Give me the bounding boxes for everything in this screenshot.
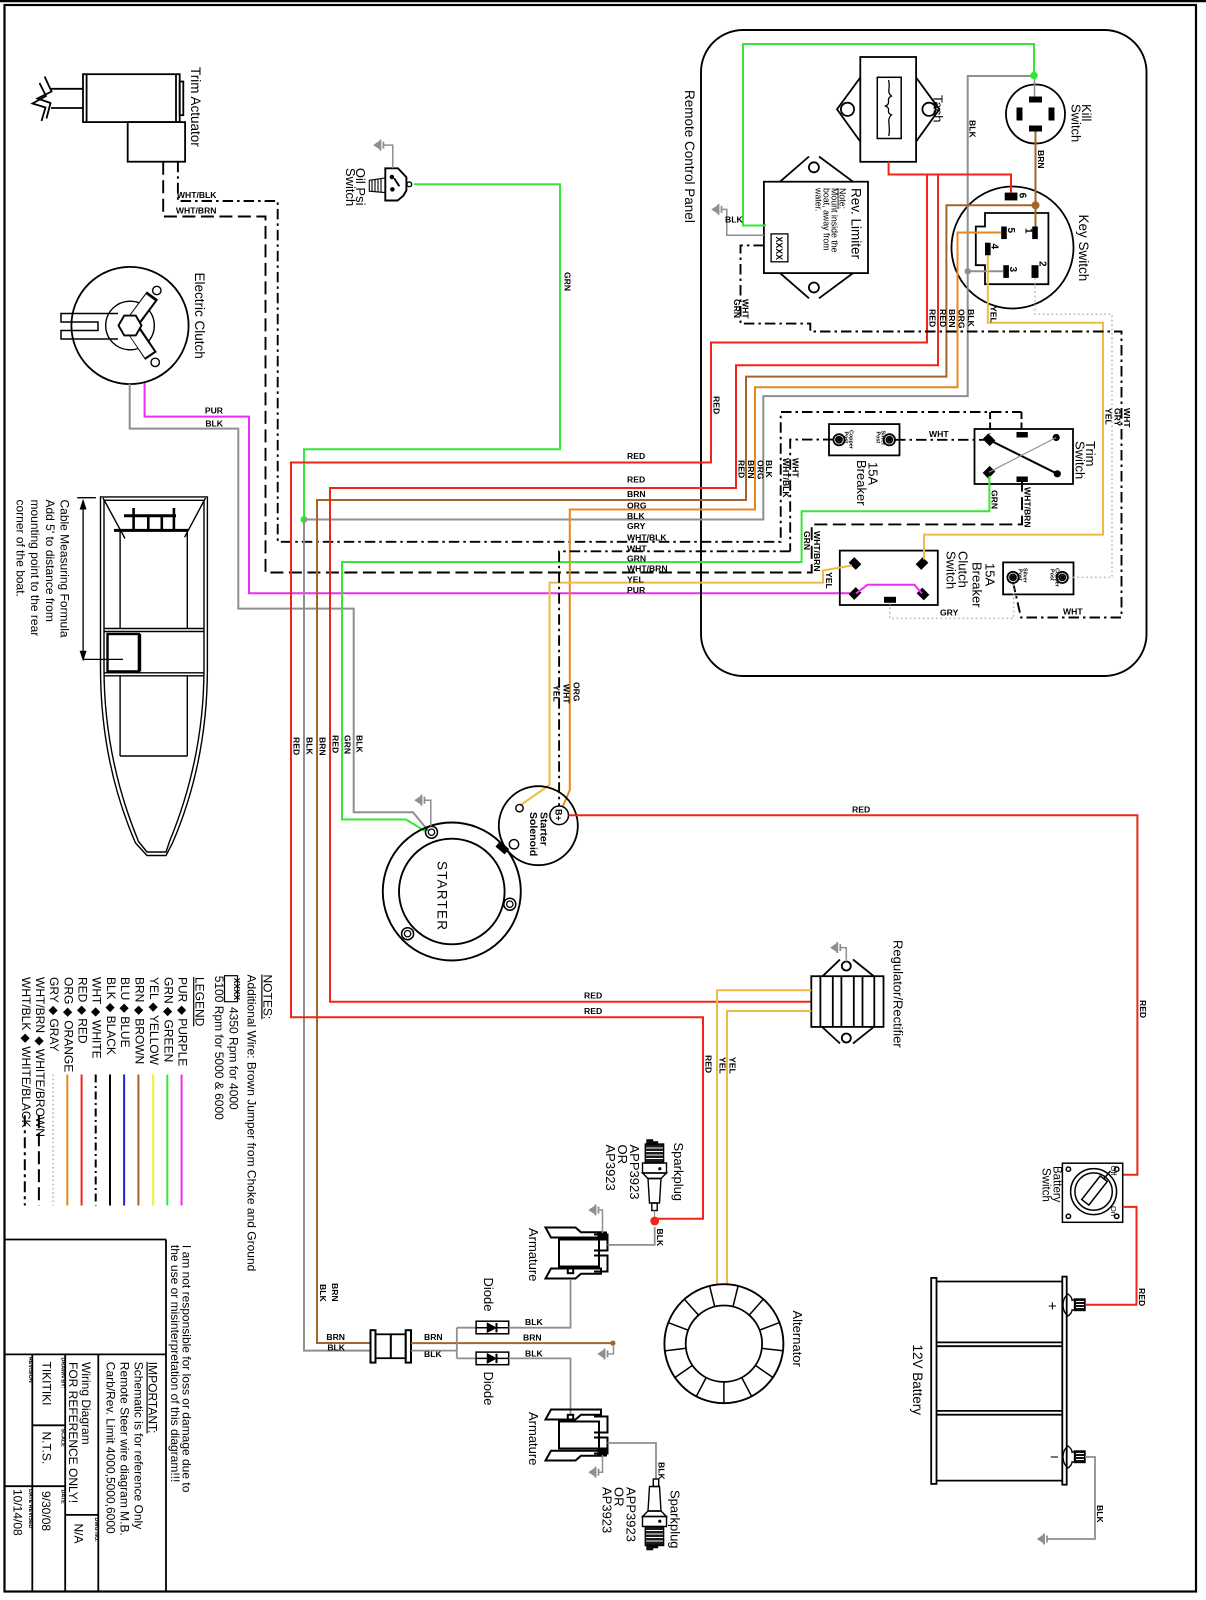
key switch pads xyxy=(985,193,1039,278)
boat lower rails xyxy=(119,676,121,756)
wire GRY pin3 stub xyxy=(968,270,1004,272)
svg-text:GRN ◆ GREEN: GRN ◆ GREEN xyxy=(161,977,175,1062)
boat hull outline xyxy=(101,497,208,856)
svg-text:+: + xyxy=(1048,1298,1057,1315)
svg-text:RED: RED xyxy=(852,805,870,815)
svg-text:Tach: Tach xyxy=(931,95,946,122)
svg-text:BLK: BLK xyxy=(725,215,743,225)
svg-text:RED: RED xyxy=(938,309,948,327)
svg-text:BRN ◆ BROWN: BRN ◆ BROWN xyxy=(132,977,146,1064)
wire BLK kill area to key pin3 and panel exit xyxy=(304,76,1031,1351)
svg-text:NOTES:: NOTES: xyxy=(261,975,275,1020)
svg-text:RED: RED xyxy=(712,396,722,414)
svg-text:5100 Rpm for 5000 & 6000: 5100 Rpm for 5000 & 6000 xyxy=(212,976,226,1120)
brown dot xyxy=(610,1341,615,1346)
ground at starter xyxy=(416,795,425,806)
svg-text:ORG: ORG xyxy=(755,460,765,480)
svg-text:Switch: Switch xyxy=(1069,104,1084,142)
svg-text:BLK: BLK xyxy=(525,1348,543,1358)
svg-text:BRN: BRN xyxy=(947,309,957,328)
svg-text:−: − xyxy=(1050,1449,1059,1466)
electric clutch hex nut xyxy=(119,316,142,336)
rev limiter body xyxy=(764,157,868,299)
oil psi threaded stub xyxy=(369,178,385,193)
armature2 ground xyxy=(599,1455,603,1472)
svg-text:YEL: YEL xyxy=(824,572,834,589)
starter bolt right xyxy=(504,898,516,910)
svg-text:BLU ◆ BLUE: BLU ◆ BLUE xyxy=(118,977,132,1048)
svg-text:RED: RED xyxy=(627,475,645,485)
wire WHT panel to solenoid xyxy=(559,551,790,806)
svg-text:N/A: N/A xyxy=(72,1524,86,1544)
svg-text:Armature: Armature xyxy=(526,1412,541,1465)
svg-text:the use or misinterpretation o: the use or misinterpretation of this dia… xyxy=(168,1245,182,1482)
svg-text:BLK: BLK xyxy=(966,309,976,327)
svg-text:GRN: GRN xyxy=(627,554,646,564)
key switch inner outline xyxy=(976,213,1049,284)
15A breaker 1 xyxy=(829,424,900,455)
svg-text:RED ◆ RED: RED ◆ RED xyxy=(76,977,90,1044)
title block xyxy=(5,1240,167,1592)
svg-text:Switch: Switch xyxy=(343,168,358,206)
svg-text:BLK: BLK xyxy=(205,419,223,429)
svg-text:1: 1 xyxy=(1023,228,1034,234)
svg-text:Armature: Armature xyxy=(526,1228,541,1281)
oil psi switch body xyxy=(385,168,411,200)
svg-text:ORG: ORG xyxy=(627,501,647,511)
starter bolt bottom-left xyxy=(402,928,414,940)
svg-text:XXXX: XXXX xyxy=(232,978,242,1001)
svg-text:WHT/BRN ◆ WHITE/BROWN: WHT/BRN ◆ WHITE/BROWN xyxy=(33,977,47,1137)
svg-text:PUR: PUR xyxy=(627,585,646,595)
svg-text:RED: RED xyxy=(737,460,747,478)
svg-text:WHT/BLK ◆ WHITE/BLACK: WHT/BLK ◆ WHITE/BLACK xyxy=(19,977,33,1128)
solenoid B+ terminal xyxy=(550,806,569,825)
svg-text:RED: RED xyxy=(292,737,302,755)
svg-text:STARTER: STARTER xyxy=(435,861,450,931)
svg-text:RED: RED xyxy=(1137,1288,1147,1306)
starter pad to solenoid xyxy=(495,841,509,854)
armature1 to sparkplug1 BLK xyxy=(608,1227,655,1245)
junction dot brown xyxy=(1032,201,1040,209)
svg-text:6: 6 xyxy=(1017,193,1028,199)
svg-text:PUR ◆ PURPLE: PUR ◆ PURPLE xyxy=(176,977,190,1066)
wire YEL regulator to alternator 1 xyxy=(717,990,811,1285)
regulator ground xyxy=(840,948,846,962)
wire WHT copper post leg xyxy=(790,440,833,552)
key switch circle xyxy=(952,187,1074,309)
svg-text:DATE: DATE xyxy=(60,1490,66,1505)
svg-text:Key Switch: Key Switch xyxy=(1076,215,1091,282)
svg-text:2: 2 xyxy=(1037,261,1048,267)
svg-text:BLK: BLK xyxy=(525,1317,543,1327)
svg-text:RED: RED xyxy=(584,1006,602,1016)
svg-text:Schematic is for reference Onl: Schematic is for reference Only xyxy=(132,1362,146,1529)
svg-text:Off: Off xyxy=(1109,1166,1118,1177)
svg-text:LEGEND: LEGEND xyxy=(192,977,206,1027)
armature 1 xyxy=(546,1228,608,1279)
electric clutch arm down-right xyxy=(130,326,159,367)
svg-text:PUR: PUR xyxy=(205,406,224,416)
svg-text:Post: Post xyxy=(1017,569,1023,581)
trim switch box xyxy=(975,429,1074,484)
wire RED solenoid B+ to battery switch xyxy=(569,815,1138,1175)
svg-text:Rev. Limiter: Rev. Limiter xyxy=(849,188,864,260)
svg-text:Remote Steer wire diagram M.B.: Remote Steer wire diagram M.B. xyxy=(118,1362,132,1536)
svg-text:N.T.S.: N.T.S. xyxy=(40,1432,54,1465)
svg-text:TIKITIKI: TIKITIKI xyxy=(40,1362,54,1406)
svg-text:4: 4 xyxy=(989,244,1000,250)
armature1 ground xyxy=(599,1210,603,1233)
svg-text:YEL: YEL xyxy=(718,1057,728,1074)
wire GRN rev limiter to kill switch loop xyxy=(743,44,1034,226)
battery + terminal wing nut xyxy=(1063,1294,1085,1316)
svg-text:10/14/08: 10/14/08 xyxy=(11,1489,25,1536)
svg-text:5: 5 xyxy=(1005,228,1016,234)
alternator ring xyxy=(664,1284,783,1403)
svg-text:Switch: Switch xyxy=(1073,441,1088,479)
svg-text:BRN: BRN xyxy=(627,489,646,499)
alternator teeth xyxy=(665,1286,783,1403)
svg-text:BRN: BRN xyxy=(746,460,756,479)
svg-text:FOR REFERENCE ONLY!: FOR REFERENCE ONLY! xyxy=(66,1362,80,1503)
svg-text:Wiring Diagram: Wiring Diagram xyxy=(79,1362,93,1445)
svg-text:Breaker: Breaker xyxy=(970,562,985,608)
svg-text:GRN: GRN xyxy=(802,531,812,550)
svg-text:WHT: WHT xyxy=(791,458,801,478)
regulator rectifier body xyxy=(811,960,883,1044)
svg-text:AP3923: AP3923 xyxy=(600,1487,615,1533)
sparkplug1 red dot xyxy=(650,1217,659,1226)
kill switch pads xyxy=(1017,97,1055,132)
remote control panel rounded box xyxy=(701,30,1147,676)
wire GRN oil psi to BLK junction xyxy=(304,184,560,519)
svg-text:Sparkplug: Sparkplug xyxy=(668,1490,683,1549)
starter inner circle xyxy=(399,839,505,945)
15A breaker 2 xyxy=(1003,562,1073,594)
svg-text:BRN: BRN xyxy=(318,737,328,756)
svg-text:YEL: YEL xyxy=(627,575,644,585)
starter solenoid circle xyxy=(499,786,578,865)
wire GRY kill switch stub to dot xyxy=(1034,79,1036,97)
12V battery body xyxy=(931,1277,1067,1485)
svg-text:GRY: GRY xyxy=(940,608,959,618)
wire WHT/BLK from trim actuator xyxy=(178,162,1022,542)
svg-text:GRN: GRN xyxy=(343,735,353,754)
svg-text:BRN: BRN xyxy=(1036,150,1046,169)
svg-text:Trim Actuator: Trim Actuator xyxy=(188,67,203,147)
svg-text:WHT: WHT xyxy=(561,684,571,704)
svg-text:WHT/BLK: WHT/BLK xyxy=(627,533,667,543)
wire GRN trim switch to starter xyxy=(342,476,989,831)
svg-text:Regulator/Rectifier: Regulator/Rectifier xyxy=(891,940,906,1048)
svg-text:YEL: YEL xyxy=(988,306,998,323)
solenoid small terminal xyxy=(516,804,523,811)
clutch switch box xyxy=(840,551,938,605)
svg-text:RED: RED xyxy=(928,309,938,327)
svg-text:BRN: BRN xyxy=(424,1332,443,1342)
svg-text:GRN: GRN xyxy=(732,299,742,318)
svg-text:ORG: ORG xyxy=(956,309,966,329)
boat side rails xyxy=(119,530,121,628)
svg-text:BRN: BRN xyxy=(330,1283,340,1302)
svg-text:Cable Measuring Formula: Cable Measuring Formula xyxy=(58,500,72,638)
trim switch center pads xyxy=(1017,432,1028,438)
svg-text:WHT: WHT xyxy=(929,429,949,439)
svg-text:WHT/BRN: WHT/BRN xyxy=(627,564,668,574)
svg-text:BLK: BLK xyxy=(318,1284,328,1302)
diode 1 xyxy=(476,1321,509,1334)
svg-text:BLK: BLK xyxy=(305,737,315,755)
trim switch cross lines xyxy=(989,440,1057,474)
svg-text:Post: Post xyxy=(875,432,881,444)
trim actuator body xyxy=(33,74,186,162)
svg-text:Alternator: Alternator xyxy=(790,1311,805,1368)
wire YEL clutch switch UL pad to solenoid xyxy=(520,566,852,806)
svg-text:XXXX: XXXX xyxy=(774,237,784,261)
wire WHT breaker1 silver post to trim switch pad xyxy=(895,439,984,441)
ground at brown dot xyxy=(608,1345,614,1354)
note: XXXX rpm box xyxy=(225,976,238,1002)
svg-text:Remote Control Panel: Remote Control Panel xyxy=(682,90,697,223)
svg-text:Breaker: Breaker xyxy=(854,460,869,506)
boat dimension line xyxy=(77,498,123,660)
starter outer circle xyxy=(383,823,521,961)
wire GRY clutch switch to breaker2 silver xyxy=(890,584,1014,619)
clutch switch magenta jumper xyxy=(856,585,922,594)
sparkplug1 tip wire xyxy=(654,1211,656,1219)
junction dot green on BLK wire xyxy=(300,516,307,523)
wire BLK coil to diodes split xyxy=(411,1328,476,1359)
armature 2 xyxy=(546,1410,608,1461)
svg-text:BLK: BLK xyxy=(655,1229,665,1247)
boat mid bulkhead xyxy=(104,628,204,630)
junction dot green above kill switch xyxy=(1030,72,1038,80)
trim switch dots xyxy=(1053,434,1060,441)
wire WHT/BLK branch to trim switch pads xyxy=(990,412,1021,434)
electric clutch hub xyxy=(106,301,155,350)
svg-text:Carb/Rev. Limit 4000,5000,6000: Carb/Rev. Limit 4000,5000,6000 xyxy=(104,1362,118,1534)
wire BLK diode1 to armature1 xyxy=(509,1280,571,1328)
svg-text:RED: RED xyxy=(704,1055,714,1073)
svg-text:Add 5' to distance from: Add 5' to distance from xyxy=(43,500,57,622)
clutch switch bottom pad xyxy=(884,597,896,603)
wire WHT/BRN from trim actuator xyxy=(163,162,1022,573)
svg-text:WHT/BRN: WHT/BRN xyxy=(1022,487,1032,528)
svg-text:RED: RED xyxy=(1138,1000,1148,1018)
wire YEL regulator to alternator 2 xyxy=(727,1011,811,1285)
tach body xyxy=(837,57,939,162)
svg-text:YEL: YEL xyxy=(728,1057,738,1074)
svg-text:Diode: Diode xyxy=(481,1278,496,1312)
svg-text:Post: Post xyxy=(1049,569,1055,581)
battery switch body xyxy=(1062,1163,1122,1222)
svg-text:WHT ◆ WHITE: WHT ◆ WHITE xyxy=(90,977,104,1059)
clutch switch diagonal pads xyxy=(849,557,862,570)
wire BLK diode2 to armature2 xyxy=(509,1358,571,1415)
solenoid lower-left terminal xyxy=(509,840,518,849)
svg-text:water.: water. xyxy=(814,187,824,211)
svg-text:Solenoid: Solenoid xyxy=(527,812,539,856)
svg-text:Switch: Switch xyxy=(1040,1168,1052,1202)
svg-text:BRN: BRN xyxy=(326,1332,345,1342)
starter ground wire xyxy=(425,800,431,826)
svg-text:ORG: ORG xyxy=(572,682,582,702)
svg-text:BLK: BLK xyxy=(355,735,365,753)
boat transom grid xyxy=(124,514,176,517)
svg-text:REVISION: REVISION xyxy=(27,1357,33,1383)
svg-text:mounting point to the rear: mounting point to the rear xyxy=(28,500,42,637)
wire RED tach to pin6 xyxy=(889,162,1011,193)
boat mounting box xyxy=(108,634,139,671)
svg-text:YEL: YEL xyxy=(1104,408,1114,425)
boat stern diagonals xyxy=(103,498,125,539)
svg-text:12V Battery: 12V Battery xyxy=(910,1345,925,1416)
svg-text:AP3923: AP3923 xyxy=(603,1145,618,1191)
wire BRN kill switch to pin1 and exit xyxy=(317,132,1036,1344)
electric clutch outer circle xyxy=(71,267,188,384)
wire RED tap1 to sparkplug1 xyxy=(291,175,927,1219)
electric clutch arm up-right xyxy=(130,286,161,325)
svg-text:Switch: Switch xyxy=(944,551,959,589)
wire RED tap2 to regulator xyxy=(330,175,938,1002)
sparkplug 2 xyxy=(643,1479,667,1550)
trim switch diagonal pads xyxy=(983,433,996,446)
svg-text:4350 Rpm for 4000: 4350 Rpm for 4000 xyxy=(227,1007,241,1110)
ground at oil psi xyxy=(374,140,383,151)
svg-text:Post: Post xyxy=(843,432,849,444)
svg-text:WHT/BLK: WHT/BLK xyxy=(781,458,791,498)
svg-text:corner of the boat.: corner of the boat. xyxy=(13,500,27,597)
svg-text:GRY: GRY xyxy=(627,521,646,531)
svg-text:RED: RED xyxy=(627,451,645,461)
kill switch circle xyxy=(1006,85,1065,144)
wire BLK from clutch to starter xyxy=(130,384,428,831)
svg-text:BLK: BLK xyxy=(627,511,645,521)
wire YEL key pin4 to clutch switch xyxy=(924,255,1103,559)
ground at rev limiter xyxy=(713,204,722,215)
svg-text:BLK: BLK xyxy=(968,120,978,138)
svg-text:YEL ◆ YELLOW: YEL ◆ YELLOW xyxy=(147,977,161,1066)
junction dot gray at pin3 xyxy=(965,268,971,274)
svg-text:WHT/BRN: WHT/BRN xyxy=(176,206,217,216)
svg-text:IMPORTANT:: IMPORTANT: xyxy=(146,1362,160,1434)
wire BLK battery negative to ground xyxy=(1047,1457,1095,1539)
svg-text:BLK ◆ BLACK: BLK ◆ BLACK xyxy=(104,977,118,1055)
starter bolt top-left xyxy=(426,826,438,838)
svg-text:ORG ◆ ORANGE: ORG ◆ ORANGE xyxy=(61,977,75,1072)
oil psi ground wire xyxy=(383,145,392,168)
svg-text:WHT/BRN: WHT/BRN xyxy=(812,531,822,572)
svg-text:SCALE: SCALE xyxy=(60,1429,66,1448)
svg-text:WHT: WHT xyxy=(1063,607,1083,617)
svg-text:RED: RED xyxy=(331,735,341,753)
svg-text:BLK: BLK xyxy=(764,460,774,478)
wire BRN coil to ground dot xyxy=(411,1342,611,1344)
svg-text:B+: B+ xyxy=(554,809,564,821)
rev limiter ground wire xyxy=(722,209,764,235)
svg-text:BRN: BRN xyxy=(523,1333,542,1343)
svg-text:DRAWN BY:: DRAWN BY: xyxy=(60,1358,66,1389)
battery - terminal wing nut xyxy=(1063,1446,1085,1468)
wire WHT rev limiter to breaker2 silver xyxy=(741,245,1122,617)
svg-text:BLK: BLK xyxy=(327,1342,345,1352)
svg-text:DATE REVISED: DATE REVISED xyxy=(27,1489,33,1529)
wire PUR from clutch xyxy=(145,383,855,593)
svg-text:GRY ◆ GRAY: GRY ◆ GRAY xyxy=(47,977,61,1052)
svg-text:BLK: BLK xyxy=(1095,1505,1105,1523)
svg-text:WHT/BLK: WHT/BLK xyxy=(177,190,217,200)
svg-text:GRN: GRN xyxy=(990,490,1000,509)
wire ORG key pin5 exit xyxy=(563,233,1001,807)
svg-text:Electric Clutch: Electric Clutch xyxy=(192,273,207,359)
svg-text:On: On xyxy=(1109,1206,1118,1216)
svg-text:GRN: GRN xyxy=(563,272,573,291)
svg-text:DWG NO.: DWG NO. xyxy=(93,1518,99,1543)
electric clutch fork arm xyxy=(61,314,118,340)
svg-text:Additional Wire: Brown Jumper: Additional Wire: Brown Jumper from Choke… xyxy=(245,975,259,1272)
svg-text:9/30/08: 9/30/08 xyxy=(39,1491,53,1531)
diode 2 xyxy=(476,1352,509,1365)
coil connector left plate xyxy=(371,1330,412,1362)
svg-text:3: 3 xyxy=(1007,267,1018,273)
svg-text:RED: RED xyxy=(584,990,602,1000)
sparkplug 1 xyxy=(643,1140,667,1211)
wire GRY key pin2 to breaker2 copper xyxy=(1035,278,1112,577)
wire RED battery switch to battery xyxy=(1086,1207,1137,1305)
armature2 to sparkplug2 BLK xyxy=(608,1443,657,1479)
svg-text:BLK: BLK xyxy=(657,1462,667,1480)
svg-text:Sparkplug: Sparkplug xyxy=(671,1143,686,1202)
svg-text:Diode: Diode xyxy=(481,1372,496,1406)
